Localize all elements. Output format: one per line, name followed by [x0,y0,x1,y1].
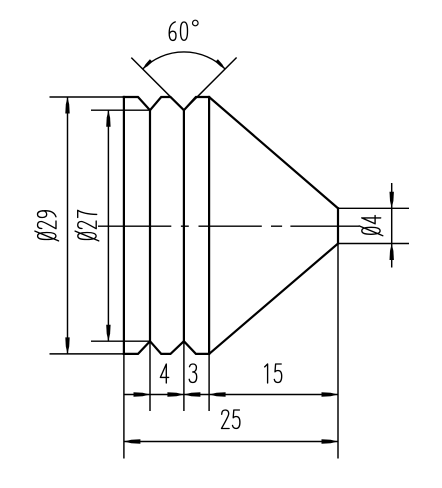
right end face [337,208,339,243]
left end face [123,97,125,354]
ext line bottom section [208,354,210,411]
arrow dia27 bottom [106,325,110,342]
60 deg construction line right [184,58,237,111]
arrow 25 right [322,439,339,443]
ext line bottom groove1 [149,341,151,411]
dim line dia27 [107,110,109,341]
dim line dia29 [67,97,69,354]
part outline bottom profile [124,244,338,354]
ext line dia27 top [91,109,150,111]
ext line bottom right face [337,244,339,459]
arrow dia29 bottom [65,337,69,354]
ext line dia29 top [50,96,124,98]
ext line dia4 top [338,207,409,209]
arc arrow left [143,59,153,69]
groove edge line 1 [149,110,151,341]
arrow dia27 top [106,110,110,127]
dim line dia4 [391,183,393,268]
ext line bottom left face [123,355,125,459]
section edge line [208,97,210,354]
dim line 4-3-15 [124,394,338,396]
arrow 25 left [124,439,140,443]
arc arrow right [215,59,225,69]
arrow at 184 pointing right [167,392,184,396]
60 deg dimension arc [143,52,225,69]
label 60deg [169,22,187,41]
label 25 [222,410,240,429]
dim line 25 [124,441,338,443]
label dia4 [359,216,383,236]
arrow at 184 pointing left [184,392,201,396]
label 15 [265,364,282,383]
label 4 [160,364,168,383]
arrow dia4 top outside [390,192,394,209]
part outline top profile [124,97,338,208]
V vertex edge line [183,110,185,341]
label 3 [189,364,197,383]
ext line dia4 bottom [338,243,409,245]
label dia27 [75,210,99,241]
label dia29 [35,211,59,241]
arrow dia4 bottom outside [390,244,394,261]
arrow at 150 pointing right [134,392,151,396]
ext line bottom vertex [183,341,185,411]
ext line dia27 bottom [91,340,150,342]
arrow dia29 top [65,97,69,114]
arrow at 338 pointing right [322,392,339,396]
60 deg construction line left [131,58,184,111]
centerline [98,225,359,227]
ext line dia29 bottom [50,353,124,355]
arrow at 209.1 pointing left [209,392,226,396]
